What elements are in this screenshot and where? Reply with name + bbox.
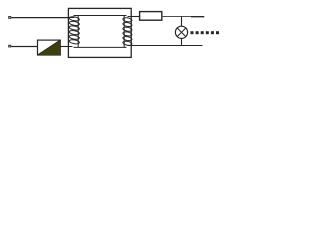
transformer TR1 enclosure box [68,8,131,57]
primary winding L1 (left leg) [68,16,79,46]
wire (transformer bottom to bottom-right rail end) [131,45,203,47]
resistor R1 [140,12,162,21]
wire (attenuator to transformer box) [60,46,68,48]
wire (top-right rail dark end segment) [191,16,204,18]
wire (lamp down to bottom-right rail) [181,38,183,45]
lamp E1 (circle with cross) [175,26,187,38]
wire (top-left input to transformer box) [11,17,68,19]
terminal T1 (top-left input) [8,16,11,19]
secondary winding L2 (right leg) [123,17,133,46]
ellipsis dots (continuation) [191,31,220,34]
background [0,0,222,64]
wire (resistor to top-right rail end) [162,16,191,18]
transformer core (inner rectangle) [74,16,127,48]
wire (junction down to lamp) [181,17,183,27]
attenuator A1 (box with shaded diagonal) [38,40,61,55]
wire (transformer to resistor R1) [131,16,140,18]
terminal T2 (bottom-left input) [8,45,11,48]
wire (bottom-left input to attenuator) [11,46,37,48]
